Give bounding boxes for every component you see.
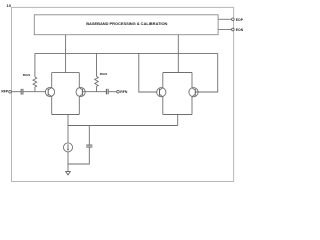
wire Q2 base to R2 junction and C2 xyxy=(82,91,106,93)
wire left tail tap xyxy=(67,115,69,144)
transistor Q4 xyxy=(189,88,198,97)
current source I1 xyxy=(64,143,73,152)
capacitor C1 xyxy=(21,89,23,95)
transistor Q2 xyxy=(76,87,85,96)
svg-text:RFN: RFN xyxy=(120,90,128,94)
resistor R1 xyxy=(23,73,37,87)
svg-text:BASEBAND PROCESSING & CALIBRAT: BASEBAND PROCESSING & CALIBRATION xyxy=(86,21,167,26)
wire EON stub xyxy=(218,29,232,31)
svg-text:EOP: EOP xyxy=(236,18,244,22)
terminal EOP xyxy=(232,18,244,22)
svg-text:10: 10 xyxy=(7,3,12,8)
svg-text:BIAS: BIAS xyxy=(23,73,30,77)
wire right drain tap (box to right drain bus) xyxy=(177,35,179,73)
resistor R1 lead top xyxy=(34,53,36,77)
wire EOP stub xyxy=(218,18,232,20)
wire C1 to Q1 base xyxy=(23,91,48,93)
wire right drain bus xyxy=(163,72,192,74)
wire Q4 collector lead xyxy=(191,73,193,88)
wire C2 to RFN terminal xyxy=(108,91,117,93)
wire left drain bus xyxy=(52,72,80,74)
terminal RFP xyxy=(1,90,11,94)
wire I1 to ground xyxy=(67,152,69,172)
resistor R2 xyxy=(95,72,108,86)
wire Q3 collector lead xyxy=(162,73,164,88)
wire Q2 emitter lead xyxy=(78,97,80,115)
terminal EON xyxy=(232,28,244,32)
wire left drain tap (box to left drain bus) xyxy=(65,35,67,73)
wire Q2 collector lead xyxy=(78,73,80,88)
wire right tail tap xyxy=(177,115,179,126)
wire rail to Q4 base xyxy=(195,53,217,92)
wire Q1 emitter lead xyxy=(51,97,53,115)
capacitor C2 xyxy=(106,89,108,95)
wire right source bus xyxy=(163,114,192,116)
terminal RFN xyxy=(117,90,128,94)
ground xyxy=(66,172,71,175)
svg-text:BIAS: BIAS xyxy=(100,72,107,76)
capacitor C3 xyxy=(86,145,92,147)
wire bypass branch bottom xyxy=(68,147,89,164)
wire left source bus xyxy=(52,114,80,116)
wire RFP to C1 xyxy=(11,91,21,93)
svg-text:EON: EON xyxy=(236,28,244,32)
chip boundary frame xyxy=(12,7,234,181)
svg-text:RFP: RFP xyxy=(1,90,9,94)
transistor Q3 xyxy=(157,88,166,97)
wire Q4 emitter lead xyxy=(191,97,193,115)
resistor R1 lead bottom xyxy=(34,87,36,92)
wire bypass branch top xyxy=(88,126,90,146)
wire Q3 emitter lead xyxy=(162,97,164,115)
wire rail to Q3 base xyxy=(139,53,160,92)
resistor R2 lead top xyxy=(96,53,98,76)
resistor R2 lead bottom xyxy=(96,86,98,91)
wire tail link xyxy=(68,125,178,127)
transistor Q1 xyxy=(45,87,54,96)
wire bias rail xyxy=(35,52,218,54)
wire Q1 collector lead xyxy=(51,73,53,88)
baseband block U1 xyxy=(34,15,218,35)
